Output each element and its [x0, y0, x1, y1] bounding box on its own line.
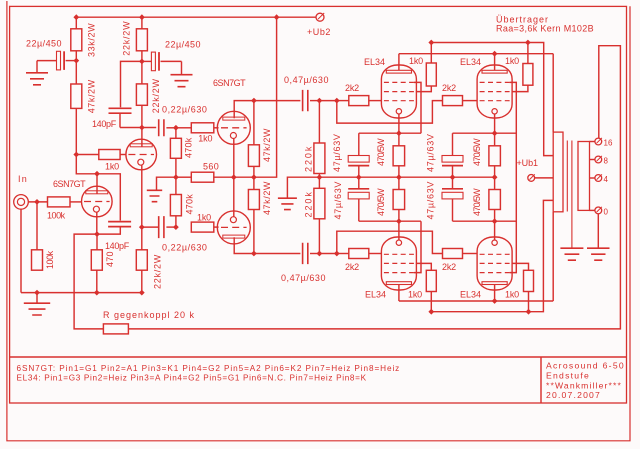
wire 33k to 47k node — [75, 51, 77, 61]
wire cap to V2a grid node — [166, 127, 176, 129]
svg-text:EL34: Pin1=G3 Pin2=Heiz Pin3=A: EL34: Pin1=G3 Pin2=Heiz Pin3=A Pin4=G2 P… — [17, 373, 367, 382]
resistor 470/5W #3 — [472, 133, 500, 177]
wire cap to 220k node upper — [310, 100, 319, 102]
junction bus/470 #3 — [492, 174, 498, 180]
wire 470k upper to bus — [175, 158, 177, 177]
svg-text:47µ/63V: 47µ/63V — [333, 181, 343, 220]
capacitor 140pF #1 — [92, 61, 142, 129]
wire EL34 #1 cathode line — [359, 114, 421, 133]
tube V2a 6SN7GT driver upper — [213, 78, 250, 144]
ground symbol driver bus — [147, 177, 176, 202]
junction V1b grid node — [73, 152, 79, 158]
wire primary top feed — [552, 54, 554, 132]
resistor 22k/2W #1 — [122, 17, 148, 56]
wire feedback from V1a cathode — [74, 234, 103, 329]
wire 22k#3 to ground rail — [141, 270, 143, 292]
junction V2b anode node — [251, 251, 257, 257]
wire driver B+ feed riser — [254, 17, 277, 177]
svg-text:0,22µ/630: 0,22µ/630 — [162, 105, 208, 115]
resistor 2k2 #4 — [442, 249, 477, 273]
junction EL34 #4 cathode — [492, 218, 498, 224]
junction screen/1k0 #4 — [526, 309, 532, 315]
ground for 22µ/450 #2 — [171, 61, 193, 86]
wire 47k lower to mid — [253, 177, 255, 189]
svg-text:Endstufe: Endstufe — [546, 371, 590, 381]
junction crossover top node — [334, 98, 340, 104]
svg-text:In: In — [18, 174, 28, 184]
resistor 470k lower — [170, 177, 194, 216]
junction V1a cathode node — [94, 231, 100, 237]
capacitor 22µ/450 #1 — [26, 39, 76, 70]
tube EL34 #2 upper right — [460, 57, 512, 118]
svg-text:EL34: EL34 — [460, 57, 481, 67]
capacitor 0,47µ/630 upper — [284, 75, 329, 111]
resistor 20k feedback — [103, 324, 128, 334]
svg-text:16: 16 — [604, 139, 613, 148]
resistor 470/5W #4 — [472, 177, 500, 221]
junction bus/470k — [173, 174, 179, 180]
svg-text:47µ/63V: 47µ/63V — [426, 133, 436, 172]
transformer core — [567, 141, 572, 248]
wire V1a anode to lower coupling riser — [97, 174, 120, 221]
label R gegenkoppl 20 k — [103, 310, 195, 320]
resistor 2k2 #3 — [345, 249, 381, 273]
wire EL34 #2 g3 tie — [510, 82, 517, 272]
resistor 33k/2W — [71, 17, 97, 57]
resistor 1k0 screen #1 — [409, 43, 436, 92]
junction rail/470 — [94, 290, 100, 296]
resistor 47k/2W supply — [71, 61, 97, 114]
resistor 47k/2W lower plate load — [248, 181, 272, 254]
svg-text:470: 470 — [105, 251, 115, 267]
junction V1b cathode node — [139, 224, 145, 230]
resistor 100k series — [47, 197, 82, 221]
terminal +Ub2 — [307, 13, 331, 37]
junction rail/22k — [139, 14, 145, 20]
wire 470 to ground rail — [96, 270, 98, 292]
junction V2b grid node — [173, 224, 179, 230]
wire V2b anode stub — [234, 237, 254, 253]
resistor 220k upper — [304, 101, 325, 174]
junction bus/470 #1 — [396, 174, 402, 180]
resistor 1k0 screen #2 — [505, 43, 533, 92]
svg-text:1k0: 1k0 — [505, 290, 519, 300]
junction input node — [34, 199, 40, 205]
svg-text:47µ/63V: 47µ/63V — [426, 181, 436, 220]
tube EL34 #3 lower left — [365, 237, 416, 300]
svg-text:Raa=3,6k Kern M102B: Raa=3,6k Kern M102B — [496, 24, 594, 34]
svg-text:47k/2W: 47k/2W — [87, 79, 97, 113]
svg-text:6SN7GT: 6SN7GT — [213, 78, 246, 88]
terminal 8 ohm tap — [590, 156, 609, 166]
wire ground rail — [21, 292, 142, 294]
input jack — [14, 195, 29, 210]
junction 220k top node — [317, 98, 323, 104]
wire EL34 #2 cathode line — [453, 114, 517, 133]
label Übertrager — [496, 15, 594, 34]
svg-text:100k: 100k — [45, 250, 55, 269]
resistor 47k/2W upper plate load — [248, 101, 272, 167]
wire bus to 47k mid node — [234, 176, 254, 178]
junction EL34 #2 cathode — [492, 130, 498, 136]
svg-text:560: 560 — [203, 162, 219, 172]
svg-text:22µ/450: 22µ/450 — [26, 39, 62, 49]
svg-text:EL34: EL34 — [365, 290, 386, 300]
svg-text:220k: 220k — [304, 190, 314, 217]
wire 470k lower to V2b grid node — [175, 216, 177, 227]
wire 220k upper to bus — [318, 174, 320, 178]
pin table separator line — [10, 356, 627, 358]
resistor 1k0 screen #3 — [408, 263, 436, 311]
wire V2a anode stub — [234, 101, 254, 119]
svg-text:0,47µ/630: 0,47µ/630 — [284, 75, 329, 85]
svg-text:2k2: 2k2 — [345, 83, 359, 93]
svg-text:**Wankmiller***: **Wankmiller*** — [546, 381, 622, 391]
pin table text — [17, 364, 401, 382]
wire EL34 #1 anode stub — [398, 54, 400, 71]
capacitor 47µ/63V #1 — [332, 133, 369, 177]
wire to crossover node upper — [319, 100, 336, 102]
junction rail/22k#3 — [139, 290, 145, 296]
svg-text:+Ub1: +Ub1 — [517, 158, 539, 168]
svg-text:1k0: 1k0 — [105, 162, 119, 172]
wire bottom anode line — [399, 300, 553, 302]
wire 22k#2 to V1b anode node — [141, 105, 143, 127]
svg-text:22k/2W: 22k/2W — [122, 21, 132, 56]
resistor 100k grid leak — [32, 202, 56, 270]
svg-text:47k/2W: 47k/2W — [262, 181, 272, 215]
junction screen/1k0 #1 — [428, 40, 434, 46]
junction crossover bottom node — [334, 251, 340, 257]
svg-text:140pF: 140pF — [105, 241, 130, 251]
wire V1b anode stub — [141, 128, 143, 147]
junction EL34 #1 cathode — [396, 130, 402, 136]
resistor 1k0 screen #4 — [505, 263, 534, 311]
label In — [18, 174, 28, 184]
terminal 16 ohm tap — [590, 138, 613, 148]
svg-text:470/5W: 470/5W — [472, 138, 482, 166]
resistor 1k0 V1b grid — [76, 150, 126, 172]
wire bottom screen line — [431, 200, 553, 311]
ground symbol 0 tap — [587, 214, 610, 260]
svg-text:8: 8 — [604, 157, 609, 166]
wire 47k upper to mid — [253, 166, 255, 177]
svg-text:1k0: 1k0 — [198, 134, 212, 144]
wire V2a cathode stub — [233, 138, 235, 177]
junction bus/220k mid — [317, 174, 323, 180]
junction rail/100k leak — [34, 290, 40, 296]
svg-text:1k0: 1k0 — [408, 290, 422, 300]
svg-text:R gegenkoppl 20 k: R gegenkoppl 20 k — [103, 310, 195, 320]
wire EL34 #3 anode stub — [398, 284, 400, 301]
svg-text:2k2: 2k2 — [442, 262, 456, 272]
svg-text:6SN7GT: Pin1=G1 Pin2=A1 Pin3=K: 6SN7GT: Pin1=G1 Pin2=A1 Pin3=K1 Pin4=G2 … — [17, 364, 401, 373]
wire crossover to EL34 #4 grid — [337, 231, 443, 253]
resistor 1k0 V2b grid stopper — [191, 213, 218, 233]
svg-text:2k2: 2k2 — [345, 262, 359, 272]
svg-text:+Ub2: +Ub2 — [307, 27, 331, 37]
svg-text:EL34: EL34 — [460, 290, 481, 300]
tube EL34 #1 upper left — [364, 57, 416, 118]
junction 47k mid node B+ — [251, 174, 257, 180]
wire top anode line — [399, 53, 553, 55]
svg-text:470k: 470k — [185, 194, 195, 215]
resistor 22k/2W #3 cathode load — [136, 227, 162, 289]
resistor 2k2 #2 — [442, 83, 477, 106]
tube EL34 #4 lower right — [460, 237, 512, 300]
junction V1b anode node — [139, 125, 145, 131]
transformer primary winding — [553, 132, 563, 212]
title block text — [546, 361, 625, 401]
tube V1a 6SN7GT input triode — [53, 179, 112, 217]
wire 22k to V1b B+ node — [141, 51, 143, 62]
junction bus/cap #3 — [450, 174, 456, 180]
wire EL34 #4 cathode line — [453, 221, 517, 240]
tube V2b 6SN7GT driver lower — [217, 211, 250, 244]
svg-text:47k/2W: 47k/2W — [262, 128, 272, 162]
resistor 1k0 V2a grid stopper — [176, 123, 219, 144]
resistor 220k lower — [304, 177, 325, 219]
wire V1a anode stub — [96, 174, 98, 194]
wire V1b grid node line — [76, 155, 97, 174]
svg-text:47µ/63V: 47µ/63V — [332, 133, 342, 172]
svg-text:470/5W: 470/5W — [376, 188, 386, 216]
wire 220k lower to grid line — [318, 219, 320, 254]
resistor 470/5W #2 — [376, 177, 405, 221]
junction V2a grid node — [173, 125, 179, 131]
resistor 470k upper — [170, 128, 193, 159]
wire EL34 #3 cathode line — [359, 221, 421, 240]
junction bus/cap #1 — [356, 174, 362, 180]
svg-text:100k: 100k — [47, 211, 66, 221]
svg-text:220k: 220k — [304, 145, 314, 172]
svg-text:140pF: 140pF — [92, 119, 117, 129]
capacitor 0,47µ/630 lower — [281, 243, 326, 283]
junction V2a cathode/bus — [231, 174, 237, 180]
wire crossover to EL34 #2 grid — [337, 101, 443, 124]
wire V1a cathode stub — [96, 212, 98, 234]
resistor 470/5W #1 — [376, 133, 405, 177]
svg-text:1k0: 1k0 — [197, 213, 211, 223]
junction EL34 #4 anode — [492, 298, 498, 304]
svg-text:470/5W: 470/5W — [472, 188, 482, 216]
wire to 2k2 #1 — [337, 100, 349, 102]
capacitor 22µ/450 #2 — [142, 40, 201, 71]
capacitor 0,22µ/630 #2 — [142, 216, 208, 252]
svg-text:1k0: 1k0 — [409, 56, 423, 66]
resistor 560 common cathode — [176, 162, 234, 183]
svg-text:22µ/450: 22µ/450 — [165, 40, 201, 50]
junction 220k bottom node — [317, 251, 323, 257]
capacitor 0,22µ/630 #1 — [159, 105, 208, 137]
svg-text:4: 4 — [604, 175, 609, 184]
svg-text:22k/2W: 22k/2W — [151, 78, 161, 113]
wire to crossover node lower — [319, 253, 336, 255]
svg-text:20.07.2007: 20.07.2007 — [546, 390, 601, 400]
ground for 22µ/450 #1 — [26, 61, 48, 85]
wire V1b anode line — [120, 127, 156, 129]
wire EL34 #2 anode stub — [494, 54, 496, 71]
svg-text:6SN7GT: 6SN7GT — [53, 179, 86, 189]
resistor 2k2 #1 — [345, 83, 381, 106]
wire to 2k2 #3 — [337, 253, 349, 255]
tube V1b 6SN7GT cathodyne — [126, 139, 157, 170]
resistor 22k/2W #2 V1b anode load — [136, 61, 161, 113]
svg-text:0,22µ/630: 0,22µ/630 — [162, 243, 208, 253]
junction screen/1k0 #2 — [525, 40, 531, 46]
wire 47k to V1b grid node — [75, 108, 77, 154]
svg-text:470/5W: 470/5W — [376, 138, 386, 166]
terminal 4 ohm tap — [590, 174, 609, 184]
wire EL34 #1 g3 tie — [414, 82, 421, 133]
svg-text:2k2: 2k2 — [442, 83, 456, 93]
junction filter node 2 — [139, 59, 145, 65]
ground symbol transformer core — [560, 248, 583, 260]
wire top screen line — [431, 43, 553, 156]
wire jack to 100k — [28, 201, 47, 203]
svg-text:Acrosound 6-50: Acrosound 6-50 — [546, 361, 625, 371]
wire V1b cathode stub — [141, 165, 143, 227]
junction rail/33k — [73, 14, 79, 20]
junction filter node 1 — [73, 58, 79, 64]
svg-text:470k: 470k — [184, 137, 194, 158]
wire EL34 #3 g3 tie — [414, 221, 421, 272]
svg-text:EL34: EL34 — [364, 57, 385, 67]
svg-text:22k/2W: 22k/2W — [153, 254, 163, 289]
ground symbol output bus — [278, 177, 320, 209]
svg-text:1k0: 1k0 — [505, 56, 519, 66]
junction V1a anode — [94, 171, 100, 177]
junction EL34 #2 anode — [492, 51, 498, 57]
wire bottom grid line — [254, 253, 301, 255]
svg-text:33k/2W: 33k/2W — [87, 23, 97, 57]
junction screen/1k0 #3 — [428, 309, 434, 315]
capacitor 47µ/63V #4 — [426, 177, 464, 221]
wire V2b cathode stub — [233, 177, 235, 217]
transformer secondary winding — [578, 142, 590, 211]
wire output ground bus — [319, 176, 494, 178]
junction rail/driver B+ feed — [274, 14, 280, 20]
resistor 470 cathode — [91, 234, 115, 270]
junction EL34 #3 cathode — [396, 218, 402, 224]
wire jack shell to ground rail — [20, 209, 22, 292]
wire primary bottom feed — [552, 212, 554, 301]
terminal 0 ohm tap — [590, 207, 609, 217]
wire cap to 220k node lower — [310, 253, 319, 255]
junction V2a anode node — [251, 98, 257, 104]
wire top grid line — [254, 100, 301, 102]
capacitor 47µ/63V #3 — [426, 133, 464, 177]
title block divider — [540, 357, 542, 403]
wire EL34 #4 anode stub — [494, 284, 496, 301]
svg-text:0,47µ/630: 0,47µ/630 — [281, 273, 326, 283]
wire +Ub2 supply rail — [76, 16, 316, 18]
capacitor 140pF #2 — [97, 222, 131, 251]
capacitor 47µ/63V #2 — [333, 177, 369, 221]
terminal +Ub1 — [517, 158, 554, 181]
wire feedback line to 16 ohm tap — [128, 46, 620, 329]
main ground symbol — [24, 293, 50, 315]
svg-text:0: 0 — [604, 207, 609, 216]
